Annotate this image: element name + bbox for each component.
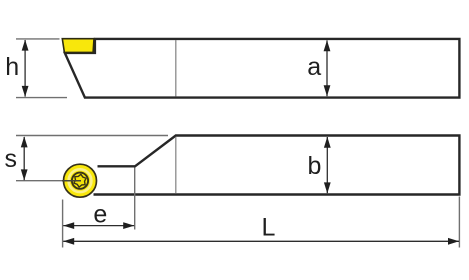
head/shank boundary line (side view) xyxy=(175,40,177,97)
screw head ring xyxy=(72,173,88,189)
a dimension line xyxy=(326,40,328,96)
e left extension line xyxy=(62,200,64,248)
b arrow up xyxy=(324,137,331,148)
h top extension line xyxy=(16,38,60,40)
b dimension line xyxy=(326,137,328,193)
svg-text:L: L xyxy=(261,214,275,242)
svg-text:a: a xyxy=(307,53,321,81)
L arrow right xyxy=(448,238,459,245)
s arrow up xyxy=(21,136,28,147)
e dimension line xyxy=(63,225,134,227)
svg-text:s: s xyxy=(4,145,17,173)
L dimension line xyxy=(63,240,459,242)
L arrow left xyxy=(63,238,74,245)
h bottom extension line xyxy=(16,97,67,99)
L right extension line xyxy=(458,197,460,248)
h arrow up xyxy=(22,40,29,51)
h dimension line xyxy=(24,40,26,97)
svg-text:b: b xyxy=(308,152,322,180)
svg-text:h: h xyxy=(5,53,19,81)
head/shank boundary line (top view) xyxy=(175,137,177,194)
s top extension line xyxy=(16,135,168,137)
e arrow right xyxy=(123,222,134,229)
svg-text:e: e xyxy=(93,201,107,229)
a arrow down xyxy=(324,85,331,96)
s arrow down xyxy=(21,169,28,180)
s bottom extension line (to insert center) xyxy=(16,180,62,182)
e right extension line xyxy=(134,168,136,230)
holder body top view xyxy=(94,136,460,195)
holder body side view xyxy=(65,39,460,98)
h arrow down xyxy=(22,86,29,97)
b arrow down xyxy=(324,182,331,193)
torx star xyxy=(74,174,86,187)
s dimension line xyxy=(23,137,25,180)
a arrow up xyxy=(324,40,331,51)
round insert (top view) xyxy=(64,164,97,197)
insert (side view, yellow) xyxy=(62,39,94,53)
s extension over insert xyxy=(62,180,81,182)
insert face highlight ring xyxy=(69,169,92,192)
e arrow left xyxy=(63,222,74,229)
